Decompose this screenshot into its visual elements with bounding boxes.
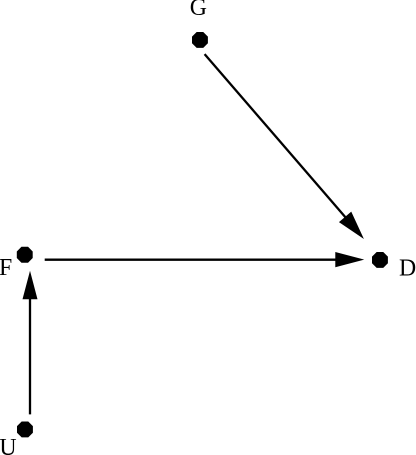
- node U: [0, 422, 33, 455]
- svg-text:F: F: [0, 255, 12, 281]
- node F: [0, 247, 33, 281]
- arrowhead U->F: [24, 275, 36, 299]
- edge F->D (wire): [45, 259, 338, 261]
- arrowhead G->D: [341, 213, 362, 236]
- node D: [372, 252, 416, 281]
- arrowhead F->D: [336, 253, 360, 266]
- edge U->F (wire): [29, 298, 31, 415]
- svg-text:D: D: [399, 255, 416, 281]
- svg-text:G: G: [190, 0, 207, 21]
- svg-text:U: U: [0, 435, 17, 455]
- node G: [190, 0, 208, 48]
- edge G->D (wire): [205, 54, 347, 218]
